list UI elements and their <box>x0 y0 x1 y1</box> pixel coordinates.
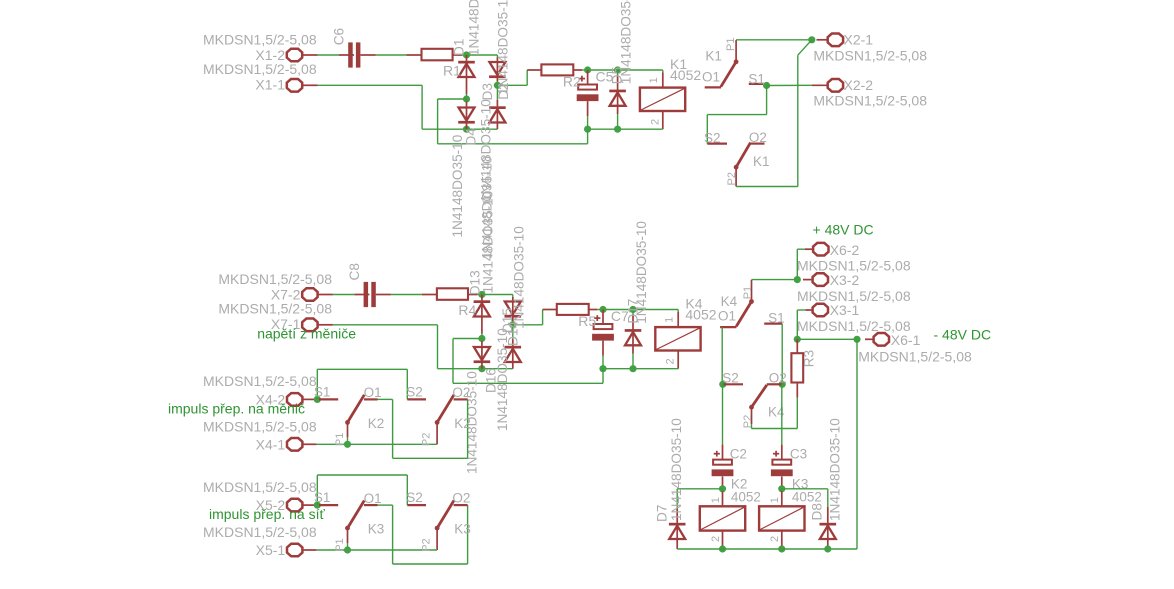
svg-text:D1: D1 <box>451 39 466 56</box>
svg-text:X2-2: X2-2 <box>844 77 874 93</box>
svg-text:1N4148DO35-10: 1N4148DO35-10 <box>669 418 684 521</box>
svg-text:O1: O1 <box>718 309 736 324</box>
svg-text:1: 1 <box>648 77 660 83</box>
svg-text:D8: D8 <box>810 503 825 520</box>
svg-text:K4: K4 <box>721 294 738 309</box>
svg-text:P2: P2 <box>726 172 738 185</box>
svg-text:S1: S1 <box>748 72 765 87</box>
svg-text:O2: O2 <box>452 385 470 400</box>
svg-text:MKDSN1,5/2-5,08: MKDSN1,5/2-5,08 <box>203 61 317 77</box>
svg-text:X2-1: X2-1 <box>844 32 874 48</box>
svg-text:1N4148DO35-10: 1N4148DO35-10 <box>618 0 633 84</box>
svg-text:X1-1: X1-1 <box>255 77 285 93</box>
svg-text:1N4148DO35-10: 1N4148DO35-10 <box>450 134 465 237</box>
svg-text:1N4148DO35-10: 1N4148DO35-10 <box>634 221 649 324</box>
svg-text:S2: S2 <box>722 371 739 386</box>
svg-text:MKDSN1,5/2-5,08: MKDSN1,5/2-5,08 <box>203 524 317 540</box>
svg-text:S1: S1 <box>314 490 331 505</box>
svg-text:D7: D7 <box>655 505 670 522</box>
svg-text:X1-2: X1-2 <box>255 47 285 63</box>
svg-text:+ 48V DC: + 48V DC <box>813 221 874 237</box>
svg-text:1N4148DO35-10: 1N4148DO35-10 <box>512 226 527 329</box>
svg-text:4052: 4052 <box>731 490 761 505</box>
svg-text:1: 1 <box>769 497 781 503</box>
svg-text:MKDSN1,5/2-5,08: MKDSN1,5/2-5,08 <box>218 301 332 317</box>
svg-text:K2: K2 <box>368 416 385 431</box>
svg-text:K3: K3 <box>368 522 385 537</box>
svg-text:MKDSN1,5/2-5,08: MKDSN1,5/2-5,08 <box>203 479 317 495</box>
svg-text:4052: 4052 <box>670 67 701 83</box>
svg-text:R1: R1 <box>443 62 461 78</box>
svg-text:P1: P1 <box>334 538 346 551</box>
svg-text:- 48V DC: - 48V DC <box>934 327 992 343</box>
svg-text:2: 2 <box>710 536 722 542</box>
svg-text:R2: R2 <box>563 74 581 90</box>
svg-text:MKDSN1,5/2-5,08: MKDSN1,5/2-5,08 <box>203 419 317 435</box>
svg-text:impuls přep. na měnič: impuls přep. na měnič <box>168 401 305 417</box>
svg-text:S1: S1 <box>314 384 331 399</box>
svg-text:S1: S1 <box>768 310 785 325</box>
svg-text:2: 2 <box>665 358 677 364</box>
svg-text:4052: 4052 <box>792 490 822 505</box>
svg-text:impuls přep. na síť: impuls přep. na síť <box>209 506 325 522</box>
svg-text:O2: O2 <box>769 371 787 386</box>
svg-text:1: 1 <box>710 497 722 503</box>
svg-text:R4: R4 <box>458 302 476 318</box>
svg-text:S2: S2 <box>406 384 423 399</box>
svg-text:P1: P1 <box>334 433 346 446</box>
svg-text:MKDSN1,5/2-5,08: MKDSN1,5/2-5,08 <box>218 271 332 287</box>
svg-text:MKDSN1,5/2-5,08: MKDSN1,5/2-5,08 <box>858 349 972 365</box>
svg-text:K1: K1 <box>705 49 722 64</box>
svg-text:napětí z měniče: napětí z měniče <box>257 326 356 342</box>
svg-text:X7-2: X7-2 <box>271 286 301 302</box>
svg-text:O1: O1 <box>364 491 382 506</box>
svg-text:2: 2 <box>769 536 781 542</box>
svg-text:X6-2: X6-2 <box>830 242 860 258</box>
svg-text:C6: C6 <box>332 28 347 45</box>
svg-text:P2: P2 <box>742 415 754 428</box>
svg-text:P2: P2 <box>421 538 433 551</box>
svg-text:X4-1: X4-1 <box>256 436 286 452</box>
svg-text:X3-2: X3-2 <box>830 272 860 288</box>
svg-text:O2: O2 <box>452 491 470 506</box>
svg-text:MKDSN1,5/2-5,08: MKDSN1,5/2-5,08 <box>203 31 317 47</box>
svg-text:X6-1: X6-1 <box>891 332 921 348</box>
svg-text:1N4148DO35-10: 1N4148DO35-10 <box>496 0 511 95</box>
svg-text:S2: S2 <box>406 490 423 505</box>
svg-text:4052: 4052 <box>685 307 716 323</box>
svg-text:MKDSN1,5/2-5,08: MKDSN1,5/2-5,08 <box>813 48 927 64</box>
svg-text:1N4148DO35-10: 1N4148DO35-10 <box>828 418 843 521</box>
svg-text:K3: K3 <box>454 522 471 537</box>
svg-text:C3: C3 <box>790 447 807 462</box>
svg-text:O1: O1 <box>702 70 720 85</box>
svg-text:MKDSN1,5/2-5,08: MKDSN1,5/2-5,08 <box>203 373 317 389</box>
svg-text:O2: O2 <box>749 130 767 145</box>
svg-text:C2: C2 <box>730 447 747 462</box>
svg-text:K2: K2 <box>454 416 471 431</box>
svg-text:1N4148DO35-10: 1N4148DO35-10 <box>480 190 495 293</box>
svg-text:2: 2 <box>649 119 661 125</box>
svg-text:D16: D16 <box>484 368 499 393</box>
svg-text:R5: R5 <box>578 313 596 329</box>
svg-text:D3: D3 <box>480 83 495 100</box>
svg-text:R3: R3 <box>802 350 817 367</box>
svg-text:X5-1: X5-1 <box>256 542 286 558</box>
svg-text:K1: K1 <box>753 154 770 169</box>
svg-text:O1: O1 <box>364 385 382 400</box>
svg-text:C8: C8 <box>347 263 362 280</box>
svg-text:D4: D4 <box>464 128 479 146</box>
svg-text:MKDSN1,5/2-5,08: MKDSN1,5/2-5,08 <box>813 93 927 109</box>
svg-text:1: 1 <box>663 317 675 323</box>
svg-text:1N4148DO35-10: 1N4148DO35-10 <box>467 0 482 56</box>
svg-text:P1: P1 <box>725 38 737 51</box>
svg-text:P1: P1 <box>742 286 754 299</box>
svg-text:MKDSN1,5/2-5,08: MKDSN1,5/2-5,08 <box>797 258 911 274</box>
svg-text:X3-1: X3-1 <box>830 302 860 318</box>
svg-text:P2: P2 <box>421 433 433 446</box>
svg-text:S2: S2 <box>704 131 721 146</box>
